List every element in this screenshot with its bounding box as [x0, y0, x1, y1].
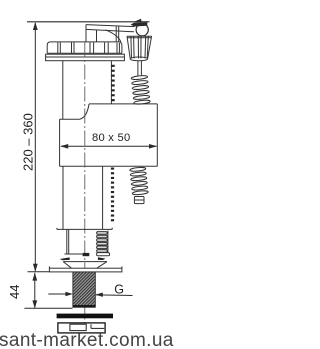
knob bottom rim — [130, 57, 147, 61]
dimension line 44 vertical — [34, 273, 36, 308]
extension line at flange level — [28, 271, 50, 273]
svg-text:44: 44 — [7, 285, 22, 299]
adjuster knob top edge — [127, 35, 152, 37]
cone left side — [63, 262, 71, 269]
arrowhead down (44 bottom) — [32, 300, 37, 308]
float box left — [59, 119, 61, 166]
bell bottom line — [60, 118, 80, 120]
knob top inner line — [127, 37, 151, 39]
cap flange — [46, 54, 125, 61]
top extension line — [27, 21, 150, 23]
seat line — [65, 253, 83, 255]
locking nut — [58, 323, 105, 333]
cap outline — [47, 42, 122, 53]
screw end piece — [134, 197, 144, 204]
bell curve — [80, 104, 89, 119]
center line dash-dot — [84, 43, 86, 272]
screw lower coils — [130, 167, 149, 195]
svg-text:220 – 360: 220 – 360 — [21, 113, 36, 171]
spring right wall — [107, 231, 109, 254]
dimension line 220-360 vertical — [34, 23, 36, 271]
float box right — [156, 104, 158, 166]
tank flange — [49, 268, 122, 272]
lower column left edge — [62, 166, 64, 229]
float box 80x50 top — [89, 103, 157, 105]
shank bottom dark band — [73, 305, 95, 307]
svg-text:sant-market.com.ua: sant-market.com.ua — [0, 330, 174, 349]
lever tip wedge below line — [131, 22, 148, 26]
lower column right edge — [102, 166, 104, 229]
link verticals — [115, 26, 117, 42]
shoulder line — [57, 228, 112, 230]
cap bottom line — [47, 52, 122, 54]
upper column left edge — [62, 61, 64, 119]
right wing — [98, 257, 106, 260]
arm support inner vertical — [96, 30, 98, 43]
housing corner curve — [106, 30, 121, 42]
lever tip wedge above line — [134, 19, 142, 22]
dimension arrow 80 — [61, 145, 157, 147]
upper column right edge — [110, 61, 112, 104]
float arm upper line — [86, 25, 135, 27]
arrowhead up (220-360 top) — [33, 22, 38, 30]
knob ribs — [130, 36, 133, 58]
arm support left vertical — [85, 25, 87, 42]
cap ribs — [57, 42, 59, 53]
screw rod — [137, 61, 139, 76]
spring bottom hook — [97, 253, 110, 256]
ratchet teeth lower — [111, 168, 114, 222]
ratchet teeth upper — [111, 65, 114, 101]
adjuster knob left side — [127, 36, 130, 58]
float box bottom — [60, 165, 158, 167]
svg-text:G: G — [114, 283, 124, 297]
float arm lower line — [86, 29, 134, 31]
tube walls — [66, 229, 68, 253]
seal dark rect — [83, 253, 90, 256]
extension line at shank bottom — [24, 307, 72, 309]
arrowhead up (44 top) — [32, 273, 37, 281]
G leader line with arrow — [96, 294, 133, 297]
G dimension left arrow — [48, 293, 66, 295]
adjuster knob right side — [148, 36, 152, 58]
arrowhead down (220-360 bottom) — [33, 264, 38, 272]
left wing — [60, 257, 70, 260]
rubber washer bar — [57, 314, 113, 319]
cone right side — [97, 262, 107, 269]
svg-text:80 x 50: 80 x 50 — [92, 132, 130, 144]
cone top line — [63, 261, 107, 263]
screw upper coils — [131, 75, 150, 105]
spring coils — [97, 232, 108, 253]
pivot circle — [136, 24, 148, 36]
